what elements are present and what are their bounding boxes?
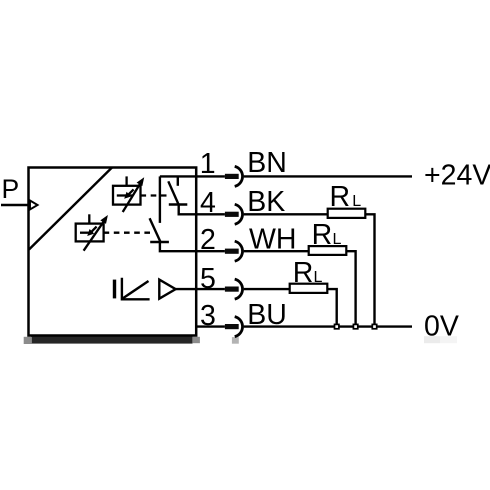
junction node R3/0V — [335, 324, 339, 328]
pin 4 plug — [225, 212, 239, 217]
pin 3 plug — [225, 324, 239, 329]
current output graph axes — [122, 278, 150, 300]
pressure setpoint element B input line — [80, 232, 93, 234]
wire BN to +24V — [244, 175, 412, 177]
dashed link A — [141, 194, 169, 196]
pin5 wire inside body — [176, 288, 197, 290]
pressure setpoint element A box — [113, 186, 141, 205]
svg-text:P: P — [2, 174, 20, 204]
port P arrow — [30, 201, 38, 210]
svg-text:0V: 0V — [424, 310, 459, 342]
pin 1 plug — [225, 174, 239, 179]
amplifier triangle — [159, 280, 175, 299]
pin 4 socket arc — [235, 204, 243, 224]
pin 1 socket arc — [235, 166, 243, 186]
pin 4 stub — [196, 213, 225, 215]
wire WH to R2 — [244, 250, 309, 252]
sensor body U1 — [29, 168, 197, 336]
switch S1 supply stem — [177, 176, 179, 185]
switch S1 arm — [168, 181, 179, 205]
mounting bar — [31, 336, 193, 344]
pressure setpoint element B pointer arrow — [91, 227, 97, 233]
switch S1 contact bar — [169, 203, 188, 205]
junction node R2/0V — [353, 324, 357, 328]
wire R3 to 0V rail — [327, 289, 336, 327]
pressure setpoint element A input line — [117, 194, 133, 196]
pressure setpoint element B stem — [88, 214, 90, 223]
svg-text:+24V: +24V — [424, 160, 490, 192]
0V text shadow — [424, 336, 440, 343]
pressure setpoint element B adjust arrow — [84, 222, 104, 251]
switch S2 contact bar — [150, 241, 169, 243]
pin 3 socket arc — [235, 317, 243, 337]
current output I label — [113, 280, 116, 299]
mounting foot right — [192, 337, 200, 343]
switch S2 arm — [150, 218, 161, 242]
wire pin1 inside body — [160, 175, 197, 177]
pin 2 plug — [225, 249, 239, 254]
pressure setpoint element A adjust arrow — [123, 184, 140, 212]
svg-text:5: 5 — [200, 263, 216, 295]
wire BK to R1 — [244, 213, 328, 215]
switch S1 output wire — [179, 205, 197, 215]
pressure setpoint element B box — [76, 224, 104, 242]
switch S2 feed wire — [159, 176, 161, 223]
connector 3 shadow — [232, 337, 239, 344]
pressure setpoint element A pointer arrow — [128, 189, 134, 195]
wire R2 to 0V rail — [346, 251, 355, 326]
port P line — [1, 204, 29, 206]
wire pin5 to R3 — [244, 288, 290, 290]
wire BU to 0V — [244, 325, 412, 327]
current output graph curve — [122, 281, 148, 299]
pin 5 stub — [196, 288, 225, 290]
svg-text:BN: BN — [247, 147, 287, 179]
svg-text:L: L — [352, 193, 361, 210]
pin 2 stub — [196, 250, 225, 252]
dashed link B — [104, 232, 153, 234]
pin 1 stub — [196, 175, 225, 177]
wire R1 to 0V rail — [365, 214, 374, 326]
switch S2 output wire — [160, 242, 197, 251]
pin 5 socket arc — [235, 279, 243, 299]
pin 5 plug — [225, 287, 239, 292]
resistor R1 — [328, 209, 366, 218]
junction node R1/0V — [372, 324, 376, 328]
resistor R2 — [309, 246, 347, 255]
pressure setpoint element A stem — [125, 176, 127, 185]
mounting foot left — [24, 337, 32, 344]
pin 2 socket arc — [235, 241, 243, 261]
pin 3 stub — [196, 325, 225, 327]
resistor R3 — [290, 284, 328, 293]
sensor body diagonal — [29, 168, 112, 250]
